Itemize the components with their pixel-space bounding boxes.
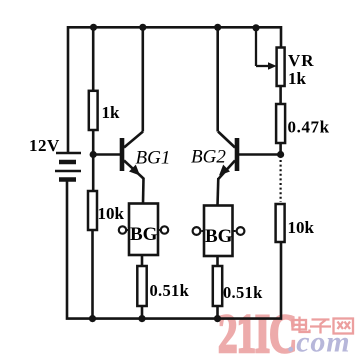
watermark 21IC.com logo <box>218 305 353 362</box>
wire BG1 base horizontal <box>93 153 120 156</box>
resistor 0.47k <box>276 104 285 143</box>
resistor 0.51k no2 <box>213 266 222 306</box>
svg-text:0.47k: 0.47k <box>288 118 330 137</box>
transistor BG2 <box>218 132 239 180</box>
svg-text:1k: 1k <box>288 69 307 88</box>
svg-text:21IC: 21IC <box>218 305 296 362</box>
svg-text:BG: BG <box>205 226 233 247</box>
wire BG2 collector vertical <box>216 27 219 131</box>
node bottom 0.51k no2 <box>214 315 221 322</box>
potentiometer VR 1k <box>277 48 285 87</box>
transistor BG1 <box>120 132 144 180</box>
wire BG box2 to 0.51k <box>216 256 219 266</box>
resistor 0.51k no1 <box>137 266 146 306</box>
resistor 10k right <box>276 204 285 242</box>
node bottom 10k left <box>89 315 96 322</box>
svg-text:0.51k: 0.51k <box>150 281 190 300</box>
wire BG2 base horizontal <box>239 153 281 156</box>
wire VR to 0.47k <box>279 86 282 104</box>
wire VR wiper horizontal <box>256 65 271 67</box>
wire between 1k and junction <box>92 130 95 191</box>
svg-text:BG2: BG2 <box>191 147 226 168</box>
node bottom 0.51k no1 <box>138 315 145 322</box>
wire BG2 emitter to BG box2 <box>216 178 219 206</box>
wire 0.47k to junction <box>279 143 282 155</box>
svg-text:BG: BG <box>130 224 158 245</box>
node top BG1 collector <box>139 24 146 31</box>
svg-text:1k: 1k <box>102 103 121 122</box>
svg-text:12V: 12V <box>29 136 60 155</box>
thermistor box BG no2 <box>193 206 245 257</box>
resistor 10k left <box>88 191 97 230</box>
VR wiper arrow <box>268 62 277 70</box>
svg-text:10k: 10k <box>288 218 315 237</box>
wire BG1 emitter to BG box1 <box>142 178 145 204</box>
wire below 10k to bottom <box>91 230 94 319</box>
battery B 12V <box>55 153 81 180</box>
svg-text:VR: VR <box>288 51 315 70</box>
wire 0.51k no2 to bottom <box>216 306 219 319</box>
node BG2 base junction right <box>277 151 284 158</box>
thermistor box BG no1 <box>119 204 168 256</box>
bottom wire <box>67 180 281 319</box>
top wire <box>68 27 281 152</box>
node BG1 base <box>90 151 97 158</box>
svg-text:.com: .com <box>288 326 350 359</box>
wire dotted below junction <box>280 160 282 202</box>
wire BG box1 to 0.51k <box>141 255 144 266</box>
svg-text:BG1: BG1 <box>136 148 171 169</box>
wire 0.51k no1 to bottom <box>141 306 144 319</box>
node top BG2 collector <box>214 24 221 31</box>
circuit in black <box>67 27 281 318</box>
wire VR wiper down <box>255 28 257 66</box>
node top 1k <box>90 24 97 31</box>
watermark chinese 电子网 <box>293 317 354 334</box>
wire branch 1k/10k vertical top <box>92 27 95 91</box>
resistor 1k <box>89 91 98 130</box>
svg-text:0.51k: 0.51k <box>223 283 263 302</box>
svg-text:10k: 10k <box>98 204 125 223</box>
node top VR wiper <box>252 24 259 31</box>
wire BG1 collector vertical <box>142 27 145 131</box>
